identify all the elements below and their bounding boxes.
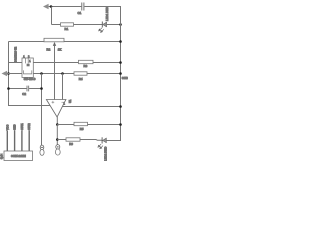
left rail wire — [9, 42, 50, 106]
svg-text:R6: R6 — [69, 142, 73, 146]
wire net A y62.5 — [9, 62, 122, 64]
node C2-x41.5 — [40, 87, 43, 90]
connector J1 pin1 wire — [6, 131, 8, 152]
svg-text:LED2 RED: LED2 RED — [103, 147, 107, 161]
svg-text:VCC: VCC — [6, 125, 9, 130]
potentiometer R2 — [44, 38, 64, 99]
node A-rail — [119, 61, 122, 64]
wire C2 net y88.5 — [9, 88, 42, 90]
svg-text:GND: GND — [122, 76, 128, 80]
op-amp U1 — [46, 100, 121, 125]
wire net VREF y41.5 — [9, 41, 122, 43]
svg-text:U1: U1 — [68, 99, 72, 103]
resistor R4 — [74, 72, 87, 75]
node D1-rail — [119, 23, 122, 26]
capacitor C1 — [82, 3, 84, 11]
capacitor C2 — [27, 86, 29, 92]
svg-text:LED1 RED: LED1 RED — [105, 7, 109, 21]
svg-text:1K: 1K — [58, 47, 62, 51]
svg-text:C2: C2 — [22, 92, 26, 96]
svg-text:R2: R2 — [47, 47, 51, 51]
node VCC junction — [50, 5, 53, 8]
node U1 V+ rail — [119, 105, 122, 108]
node GND junction — [7, 72, 10, 75]
svg-text:R5: R5 — [80, 127, 84, 131]
connector J1 box — [4, 151, 33, 161]
node VREF-rail — [119, 40, 122, 43]
net arrow VCC (top, pointing left) — [43, 4, 49, 10]
wire out down — [56, 125, 58, 145]
node rail-C2 — [7, 87, 10, 90]
svg-text:C1: C1 — [78, 11, 82, 15]
wire out y139.5 — [57, 139, 66, 141]
LED D2 — [98, 137, 121, 148]
svg-text:DS18B20 U2: DS18B20 U2 — [13, 46, 17, 62]
svg-text:OUT1: OUT1 — [21, 123, 24, 130]
connector J1 pin4 wire — [28, 131, 30, 152]
wire inverting input x62.5 — [62, 74, 64, 100]
node B x62.5 — [61, 72, 64, 75]
node B-rail — [119, 72, 122, 75]
connector J1 pin2 wire — [14, 131, 16, 152]
right rail wire — [120, 7, 122, 141]
svg-text:R1: R1 — [65, 27, 69, 31]
wire R6 to LED2 — [80, 139, 102, 142]
net arrow GND (left, pointing left) — [2, 71, 8, 77]
node out2 — [56, 138, 59, 141]
svg-text:R3: R3 — [84, 64, 88, 68]
wire net B y73.5 — [7, 73, 121, 75]
wire out y124.5 — [57, 124, 121, 126]
svg-text:OUT2: OUT2 — [28, 123, 31, 130]
connector J1 pin3 wire — [21, 131, 23, 152]
svg-text:CON4-2.0MM: CON4-2.0MM — [11, 155, 26, 158]
resistor R6 — [66, 138, 80, 141]
sensor X1 box — [22, 58, 33, 77]
node out1 — [56, 123, 59, 126]
LED D1 — [99, 22, 121, 33]
svg-text:R4: R4 — [79, 77, 83, 81]
svg-text:4P: 4P — [0, 157, 3, 160]
wire x41.5 down — [41, 74, 43, 146]
wire VCC down to R1 — [52, 7, 61, 25]
node B x41.5 — [40, 72, 43, 75]
resistor R3 — [79, 60, 94, 63]
resistor R5 — [74, 122, 88, 125]
svg-text:1: 1 — [64, 102, 66, 105]
test point TP2 — [55, 145, 60, 156]
svg-text:SW-420-D: SW-420-D — [24, 78, 36, 81]
node out-rail — [119, 123, 122, 126]
svg-text:GND: GND — [14, 124, 17, 130]
test point TP1 — [40, 145, 44, 155]
wire VCC top — [49, 6, 121, 8]
resistor R1 — [61, 23, 103, 26]
